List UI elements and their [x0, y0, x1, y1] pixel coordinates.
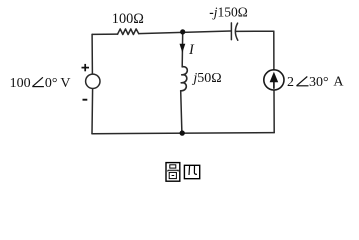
current source I1 circle: [264, 70, 284, 90]
capacitor C1 -j150Ω left plate: [230, 23, 232, 40]
wire bottom: [92, 133, 274, 134]
plus sign of voltage source: [82, 64, 90, 71]
angle symbol of voltage source label: [32, 77, 44, 86]
wire left branch upper: [91, 34, 93, 74]
caption character 四 (four): [184, 165, 199, 178]
resistor R1 100Ω zigzag: [118, 29, 139, 35]
svg-text:100: 100: [10, 76, 31, 91]
current source I1 arrow: [270, 72, 279, 89]
svg-text:100Ω: 100Ω: [112, 11, 144, 27]
node junction bottom dot: [180, 130, 185, 135]
wire capacitor to top-right corner: [236, 30, 274, 32]
svg-text:0°: 0°: [45, 76, 58, 91]
svg-text:2: 2: [287, 75, 294, 90]
wire resistor to capacitor: [139, 31, 231, 34]
inductor L1 j50Ω coil: [181, 67, 188, 91]
wire top-left segment: [92, 33, 118, 35]
svg-text:30°: 30°: [309, 75, 329, 90]
caption character 圖 (figure): [166, 163, 180, 182]
capacitor C1 curved right plate: [235, 23, 237, 40]
wire middle branch upper with current direction: [181, 32, 184, 67]
wire right branch upper: [273, 31, 275, 70]
node junction top dot: [180, 29, 185, 34]
angle symbol of current source label: [297, 77, 309, 86]
svg-text:j50Ω: j50Ω: [191, 71, 221, 86]
wire left branch lower: [91, 89, 94, 134]
minus sign of voltage source: [83, 99, 88, 101]
svg-text:V: V: [60, 76, 70, 91]
svg-text:A: A: [333, 75, 344, 90]
svg-text:-j150Ω: -j150Ω: [209, 4, 248, 19]
voltage source V1 circle: [86, 74, 100, 88]
wire below inductor: [181, 91, 182, 133]
current arrow I on middle branch: [180, 44, 186, 53]
wire right branch lower: [273, 90, 275, 133]
